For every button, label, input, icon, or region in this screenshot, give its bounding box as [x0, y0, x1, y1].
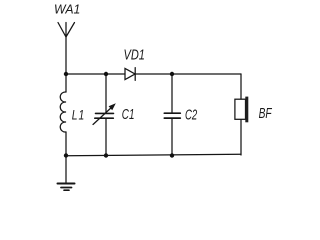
svg-text:VD1: VD1 [124, 46, 145, 63]
svg-text:C1: C1 [122, 106, 135, 123]
svg-text:BF: BF [259, 104, 273, 122]
svg-text:WA1: WA1 [54, 2, 80, 16]
svg-text:L1: L1 [72, 107, 85, 123]
svg-text:C2: C2 [185, 106, 197, 123]
